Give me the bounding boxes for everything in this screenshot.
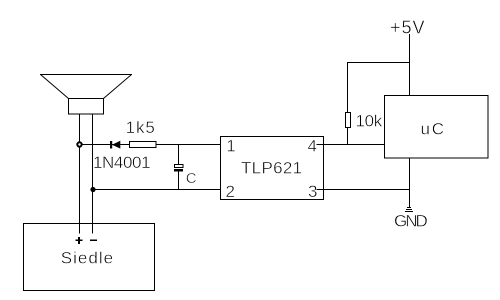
diode D1 1N4001	[110, 141, 120, 149]
label plus terminal	[75, 237, 82, 244]
wire 10k bottom lead	[347, 128, 349, 145]
chip U2 uC box	[385, 96, 489, 159]
wire 10k top lead	[347, 63, 349, 113]
wire pin4 to uC	[317, 144, 386, 146]
Siedle box	[24, 224, 155, 291]
svg-text:10k: 10k	[356, 111, 383, 130]
svg-text:+5V: +5V	[390, 17, 426, 37]
junction dot	[90, 187, 95, 192]
svg-text:Siedle: Siedle	[61, 248, 114, 267]
wire uC to ground	[409, 158, 411, 207]
svg-text:1N4001: 1N4001	[93, 153, 150, 172]
svg-text:1k5: 1k5	[126, 118, 156, 137]
resistor R2 10k	[346, 113, 351, 128]
capacitor C	[174, 165, 183, 172]
speaker LS1	[40, 75, 132, 115]
resistor R1 1k5	[130, 142, 157, 148]
svg-text:2: 2	[226, 182, 235, 201]
svg-text:TLP621: TLP621	[241, 159, 302, 178]
wire speaker left lead	[79, 114, 81, 234]
wire +5V branch horizontal	[347, 62, 410, 64]
svg-text:4: 4	[308, 137, 317, 156]
svg-text:uC: uC	[421, 120, 446, 139]
ground	[405, 208, 413, 212]
wire pin3 to gnd rail	[317, 189, 410, 191]
wire capacitor branch top	[178, 145, 180, 165]
svg-text:GND: GND	[394, 212, 428, 231]
wire +5V vertical	[409, 34, 411, 96]
svg-text:C: C	[186, 170, 197, 187]
wire bottom horizontal	[93, 189, 225, 191]
op-amp U1 optocoupler TLP621 box	[221, 137, 324, 200]
svg-text:3: 3	[308, 182, 317, 201]
wire speaker right lead	[92, 114, 94, 234]
label minus terminal	[90, 239, 97, 241]
svg-text:1: 1	[226, 137, 235, 156]
wire main top horizontal	[80, 144, 226, 146]
node A ring	[77, 142, 81, 146]
wire capacitor branch bottom	[178, 172, 180, 190]
